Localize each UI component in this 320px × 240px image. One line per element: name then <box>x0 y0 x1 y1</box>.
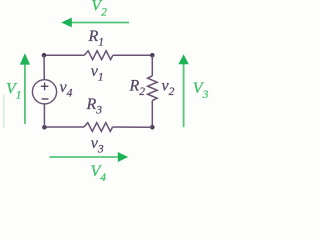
source v4 <box>32 80 56 104</box>
svg-text:V1: V1 <box>6 81 22 102</box>
wire left upper <box>43 55 45 79</box>
resistor R1 <box>84 51 113 60</box>
svg-text:R3: R3 <box>86 96 103 116</box>
resistor R3 <box>84 123 113 132</box>
source minus <box>42 98 49 100</box>
svg-text:R2: R2 <box>129 78 146 98</box>
faint scan mark left <box>3 95 5 128</box>
svg-text:v4: v4 <box>60 79 73 99</box>
wire left lower <box>43 104 45 127</box>
resistor R2 <box>148 76 158 101</box>
wire bottom from node D to R3 <box>44 126 84 128</box>
svg-text:R1: R1 <box>88 28 105 48</box>
node B (top-right) <box>150 53 155 58</box>
arrow V1 (left, pointing up) <box>24 64 26 124</box>
svg-text:v3: v3 <box>91 135 104 155</box>
arrow V4 (bottom, pointing right) <box>50 156 119 158</box>
node A (top-left) <box>42 53 47 58</box>
svg-text:v1: v1 <box>91 63 104 83</box>
svg-text:V3: V3 <box>193 80 209 101</box>
arrow V2 (top, pointing left) <box>71 22 129 24</box>
node C (bottom-right) <box>150 125 155 130</box>
node D (bottom-left) <box>42 125 47 130</box>
arrow V3 (right, pointing up) <box>183 64 185 128</box>
wire top from R1 to node B <box>113 54 152 56</box>
wire bottom from R3 to node C <box>113 126 153 128</box>
wire top from node A to R1 <box>44 54 84 56</box>
source plus <box>41 83 49 91</box>
wire right upper <box>151 55 153 76</box>
svg-text:V2: V2 <box>91 0 107 19</box>
wire right lower <box>151 101 153 128</box>
svg-text:v2: v2 <box>162 78 175 98</box>
svg-text:V4: V4 <box>91 163 107 184</box>
